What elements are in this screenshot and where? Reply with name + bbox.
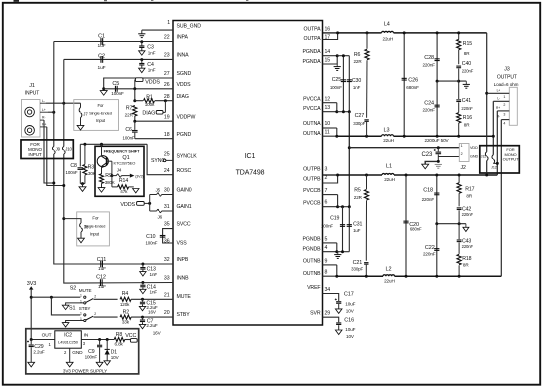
net flag DIAG (164, 101, 166, 113)
svg-text:220nF: 220nF (423, 252, 436, 257)
wire SVCC pin35 (163, 229, 173, 243)
ground IC2 (66, 362, 73, 367)
ground A sgnd (463, 83, 470, 85)
svg-text:L-: L- (497, 97, 500, 101)
svg-text:15: 15 (325, 58, 331, 64)
capacitor C28 column (436, 33, 438, 81)
svg-text:SYNCLK: SYNCLK (177, 154, 198, 160)
svg-text:C5: C5 (112, 81, 119, 87)
svg-text:1nF: 1nF (150, 290, 158, 295)
svg-text:INPB: INPB (177, 257, 189, 263)
node C23 junction (437, 146, 440, 149)
node R3 top (83, 143, 86, 146)
box FOR MONO INPUT (21, 140, 73, 159)
svg-text:MUTE: MUTE (177, 294, 192, 300)
wire SVR pin29 (323, 317, 339, 322)
svg-text:10V: 10V (111, 355, 120, 360)
svg-text:OUTPA: OUTPA (304, 26, 322, 32)
node C5 left junction (102, 87, 105, 90)
svg-text:PGNDB: PGNDB (303, 236, 322, 242)
decoupling column C30 (348, 56, 350, 112)
svg-text:PVCCA: PVCCA (303, 96, 321, 102)
svg-text:R5: R5 (354, 188, 361, 194)
wire VDDPW pin19 (134, 116, 136, 121)
svg-text:1uF: 1uF (98, 43, 106, 49)
svg-text:2200uF 50V: 2200uF 50V (424, 138, 449, 143)
wire PGNDB pins 5 4 bracket (323, 242, 337, 244)
svg-text:J6: J6 (157, 215, 162, 220)
svg-text:16: 16 (325, 26, 331, 32)
net flag VDDS top (134, 80, 136, 89)
wire PGNDA pins 14 15 bracket (323, 55, 338, 57)
svg-text:Load=6 ohm: Load=6 ohm (494, 82, 519, 87)
svg-text:3V3: 3V3 (27, 281, 37, 287)
resistor R2 (120, 315, 131, 319)
svg-text:IC1: IC1 (245, 153, 256, 160)
wire OUTPB pins 3 2 bracket (323, 174, 338, 176)
box FOR MONO OUTPUT (480, 146, 520, 173)
svg-text:9: 9 (325, 258, 328, 264)
svg-text:13: 13 (325, 105, 331, 111)
transistor Q1 (97, 156, 108, 167)
jumper J7 (80, 103, 82, 107)
svg-text:21: 21 (164, 292, 170, 298)
svg-text:100k: 100k (145, 102, 155, 107)
node R1 R7 junction (133, 99, 136, 102)
svg-text:TDA7498: TDA7498 (236, 170, 265, 177)
svg-text:31: 31 (164, 204, 170, 210)
svg-text:C21: C21 (353, 260, 363, 266)
decoupling column C25 (342, 56, 344, 112)
svg-text:1nF: 1nF (150, 272, 158, 277)
svg-text:4: 4 (325, 245, 328, 251)
svg-text:1: 1 (80, 294, 82, 298)
svg-text:1uF: 1uF (98, 284, 106, 290)
capacitor C24 column (436, 81, 438, 136)
rail OUTB+ left (338, 174, 382, 176)
riser OUTB- to J3 pin4 (500, 120, 502, 277)
capacitor C26 column (403, 33, 405, 136)
svg-text:1: 1 (80, 311, 82, 315)
ground PGNDB sgnd (337, 252, 339, 255)
wire INPA horizontal (54, 41, 173, 43)
svg-text:J1: J1 (29, 83, 35, 89)
svg-text:L4931C250: L4931C250 (58, 340, 79, 345)
capacitor C21 (364, 262, 368, 264)
svg-text:22uH: 22uH (384, 177, 395, 182)
svg-text:R4: R4 (122, 291, 129, 297)
svg-text:19: 19 (164, 114, 170, 120)
wire SGND pin27 (104, 78, 173, 89)
svg-text:7: 7 (325, 188, 328, 194)
svg-text:R6: R6 (354, 52, 361, 58)
svg-text:L1: L1 (386, 163, 392, 169)
node INPA junction C3 (140, 40, 143, 43)
resistor R15 (458, 33, 460, 40)
svg-text:2: 2 (503, 103, 505, 107)
svg-text:680nF: 680nF (410, 226, 422, 231)
wire ROSC corner to pin24 (147, 144, 173, 174)
capacitor C9 (99, 340, 101, 345)
svg-text:10uF: 10uF (345, 301, 355, 306)
svg-text:680nF: 680nF (406, 85, 419, 90)
capacitor C42 (457, 207, 462, 209)
wire 3V3 rail (30, 290, 32, 340)
capacitor C16 (336, 322, 341, 324)
svg-text:100nF: 100nF (145, 241, 157, 246)
svg-text:2.2uF: 2.2uF (146, 323, 158, 328)
svg-text:J4: J4 (117, 167, 122, 172)
IC1 pin1 SUB_GND wire (142, 29, 173, 31)
svg-text:28: 28 (164, 94, 170, 100)
svg-text:C41: C41 (462, 98, 471, 104)
capacitor C7 (142, 317, 144, 319)
svg-text:OUTPA: OUTPA (304, 36, 322, 42)
wire INNA horizontal (64, 58, 173, 60)
svg-text:10uF: 10uF (345, 327, 355, 332)
capacitor C17 (336, 301, 341, 303)
capacitor C5 (114, 86, 116, 92)
svg-text:C40: C40 (462, 61, 471, 67)
svg-text:VDDPW: VDDPW (177, 114, 196, 120)
svg-text:J3: J3 (504, 67, 510, 73)
svg-text:18: 18 (164, 132, 170, 138)
ground C14 (140, 289, 146, 293)
svg-text:12: 12 (325, 96, 331, 102)
svg-text:220nF: 220nF (422, 197, 435, 202)
svg-text:VCC: VCC (125, 333, 136, 339)
svg-text:R15: R15 (463, 41, 472, 47)
rail OUTA- right (394, 135, 494, 137)
svg-text:J7: J7 (83, 111, 88, 116)
ground C15 (139, 306, 145, 310)
svg-text:C16: C16 (344, 318, 354, 324)
IC U1 TDA7498 body (173, 21, 323, 326)
ground D1 (104, 361, 110, 365)
svg-text:C25: C25 (332, 77, 341, 83)
connector J3 body (509, 87, 517, 125)
J1 RCA jack R (25, 126, 35, 136)
node C9 junction (98, 338, 101, 341)
svg-text:ROSC: ROSC (177, 168, 192, 174)
wire R- riser to INPB (44, 120, 54, 183)
bus VDD vertical (348, 112, 350, 207)
svg-text:PVCCB: PVCCB (303, 188, 321, 194)
svg-text:220nF: 220nF (422, 62, 435, 67)
svg-text:10V: 10V (346, 334, 355, 339)
node C15 junction (141, 298, 144, 301)
ground GND supply triangle (422, 164, 429, 169)
wire VDDS vertical to R1 R7 (134, 89, 136, 101)
svg-text:INNA: INNA (177, 53, 190, 59)
wire VREF pin34 (323, 294, 339, 302)
wire INNA riser x63.8 upper (63, 59, 65, 103)
svg-text:OUT: OUT (42, 333, 52, 339)
svg-text:2: 2 (461, 152, 463, 156)
svg-text:INPUT: INPUT (28, 152, 42, 157)
svg-text:8: 8 (325, 270, 328, 276)
ground PGNDA sgnd (336, 64, 338, 66)
svg-text:8R: 8R (463, 262, 469, 267)
svg-text:For: For (98, 103, 105, 108)
svg-text:1: 1 (167, 20, 170, 26)
svg-text:1nF: 1nF (148, 67, 156, 72)
ground C7 (139, 324, 145, 328)
svg-text:R8: R8 (116, 332, 123, 338)
node INNA junction C4 (140, 58, 143, 61)
svg-text:S2: S2 (70, 286, 76, 292)
wire ROSC net top (80, 143, 147, 145)
capacitor C8 (79, 144, 81, 166)
zener diode D1 (106, 340, 108, 350)
ground line A mid (437, 80, 466, 82)
jumper J5 GAIN0 (150, 194, 157, 196)
svg-text:C22: C22 (425, 245, 435, 251)
svg-text:26: 26 (164, 82, 170, 88)
capacitor C3 (141, 42, 143, 46)
svg-text:100nF: 100nF (66, 170, 78, 175)
svg-text:16V: 16V (153, 331, 162, 336)
svg-text:8R: 8R (466, 194, 472, 199)
svg-text:24: 24 (164, 168, 170, 174)
ground J8 (78, 238, 85, 243)
resistor R1 (135, 100, 143, 102)
ground S2 (62, 305, 69, 309)
svg-text:C31: C31 (353, 222, 362, 228)
capacitor C2 (100, 56, 102, 63)
svg-text:34: 34 (325, 287, 331, 293)
jumper J12 (492, 155, 493, 159)
capacitor C11 (100, 261, 102, 268)
svg-text:100nF: 100nF (330, 85, 342, 90)
svg-text:27: 27 (164, 71, 170, 77)
wire L+ to riser x53.8 (48, 111, 54, 113)
svg-text:R+: R+ (496, 106, 500, 110)
svg-text:100nF: 100nF (111, 91, 124, 96)
node S1 branch (50, 296, 53, 299)
svg-text:1uF: 1uF (98, 65, 106, 71)
svg-text:5: 5 (325, 236, 328, 242)
svg-text:OUTNB: OUTNB (303, 271, 321, 277)
svg-text:PGNDA: PGNDA (303, 59, 322, 65)
jumper J8 (64, 219, 81, 223)
wire PGND pin18 (135, 138, 173, 140)
svg-text:IC2: IC2 (64, 333, 72, 339)
svg-text:VDDS: VDDS (145, 79, 160, 85)
wire C8 R3 bottom (80, 183, 85, 185)
svg-text:GND: GND (470, 155, 478, 159)
connector J1 body (22, 100, 41, 138)
svg-text:100nF: 100nF (123, 136, 135, 141)
svg-text:220nF: 220nF (462, 69, 474, 74)
svg-text:J12: J12 (491, 165, 497, 169)
riser OUTA- to J3 pin2 (492, 101, 494, 155)
svg-text:OUTNA: OUTNA (303, 121, 321, 127)
svg-text:VDDS: VDDS (177, 82, 192, 88)
capacitor C18 column (436, 175, 438, 224)
svg-text:C26: C26 (408, 78, 418, 84)
svg-text:20: 20 (164, 310, 170, 316)
svg-text:14: 14 (325, 49, 331, 55)
svg-text:R3: R3 (88, 164, 95, 170)
node VDDPW junction (133, 120, 136, 123)
node 3V3 bus (30, 296, 33, 299)
svg-text:3: 3 (503, 113, 505, 117)
wire L- net to J7 and C2 riser (46, 102, 81, 104)
rail OUTA+ right (394, 32, 487, 34)
riser OUTA+ to J3 pin1 (486, 33, 488, 152)
svg-text:6: 6 (325, 199, 328, 205)
svg-text:380K: 380K (105, 180, 115, 185)
svg-text:L+: L+ (497, 88, 501, 92)
svg-text:INPUT: INPUT (25, 91, 40, 97)
node gain junction (148, 202, 151, 205)
svg-text:C24: C24 (424, 100, 434, 106)
svg-text:3V3 POWER SUPPLY: 3V3 POWER SUPPLY (63, 369, 107, 374)
svg-text:GND: GND (72, 350, 83, 356)
svg-text:FREQUENCY SHIFT: FREQUENCY SHIFT (104, 149, 140, 153)
svg-text:29: 29 (325, 311, 331, 317)
svg-text:30K: 30K (88, 171, 97, 176)
ground C13 (140, 272, 146, 276)
svg-text:35: 35 (164, 222, 170, 228)
svg-text:SVR: SVR (310, 311, 321, 317)
wire Q1 base to J4 node (107, 160, 112, 162)
svg-text:30: 30 (164, 187, 170, 193)
resistor R6 zobel A (366, 33, 368, 49)
svg-text:22uH: 22uH (383, 37, 394, 42)
capacitor C40 (456, 65, 461, 67)
capacitor C23 (434, 149, 436, 151)
svg-text:R-: R- (497, 115, 500, 119)
svg-text:Single-Ended: Single-Ended (89, 110, 112, 115)
svg-text:10V: 10V (346, 308, 355, 313)
svg-text:R7: R7 (126, 105, 133, 111)
svg-text:220nF: 220nF (462, 244, 474, 249)
svg-text:INPA: INPA (177, 35, 189, 41)
svg-text:L2: L2 (386, 267, 392, 273)
node J8 junction (62, 217, 65, 220)
wire 3V3 to S1 (51, 297, 80, 315)
svg-text:L3: L3 (384, 128, 390, 134)
ground R14 (133, 189, 139, 193)
svg-text:10: 10 (325, 121, 331, 127)
svg-text:2: 2 (325, 175, 328, 181)
wire OUTPA pins 16 17 bracket (323, 32, 338, 34)
svg-text:L+: L+ (42, 108, 46, 112)
capacitor C15 (142, 299, 144, 301)
wire OUTNA pins 10 11 bracket (323, 127, 337, 129)
resistor R16 (457, 113, 461, 123)
svg-text:OUTPB: OUTPB (303, 177, 321, 183)
svg-text:GAIN1: GAIN1 (177, 204, 192, 210)
svg-text:Input: Input (96, 118, 106, 123)
svg-text:GAIN0: GAIN0 (177, 188, 192, 194)
resistor R14 (111, 176, 113, 187)
svg-text:2: 2 (94, 312, 96, 316)
capacitor C10 (160, 235, 166, 237)
svg-text:PVCCA: PVCCA (303, 106, 321, 112)
capacitor C41 (458, 81, 460, 99)
svg-text:C6: C6 (125, 127, 132, 133)
jumper J6 GAIN1 (149, 203, 151, 211)
svg-text:220nF: 220nF (462, 212, 474, 217)
svg-text:22uH: 22uH (384, 278, 395, 283)
svg-text:J11: J11 (481, 154, 486, 158)
decoupling column C19 (342, 207, 344, 252)
wire Q1 emitter to R9 (101, 166, 103, 174)
resistor R8 (114, 337, 125, 341)
svg-text:C27: C27 (355, 113, 365, 119)
svg-text:1uF: 1uF (353, 228, 361, 233)
capacitor C6 (134, 121, 136, 130)
node DIAG junction (164, 99, 167, 102)
capacitor C43 (458, 224, 460, 240)
wire INPB riser x53.8 lower (52, 147, 53, 150)
svg-text:220nF: 220nF (461, 106, 473, 111)
svg-text:22R: 22R (354, 195, 363, 200)
svg-text:STBY: STBY (177, 312, 191, 318)
svg-text:OUTPB: OUTPB (303, 167, 321, 173)
svg-text:C8: C8 (70, 163, 77, 169)
jumper J11 (485, 152, 486, 156)
box For Single-Ended Input (B) (77, 212, 110, 246)
ground R9 (101, 183, 103, 187)
svg-text:J9: J9 (56, 146, 61, 151)
svg-text:J10: J10 (65, 146, 72, 151)
svg-text:VDD: VDD (470, 146, 478, 150)
svg-text:8R: 8R (464, 123, 470, 128)
svg-text:C19: C19 (330, 215, 339, 221)
svg-text:C17: C17 (344, 291, 354, 297)
svg-text:33k: 33k (122, 320, 130, 325)
wire INNB horizontal (66, 282, 173, 285)
ground J7 (77, 125, 84, 130)
node R6 top (366, 31, 369, 34)
svg-text:R-: R- (42, 116, 45, 120)
wire R+ riser to INNB (47, 127, 64, 186)
svg-text:PGNDB: PGNDB (303, 246, 322, 252)
node D1 junction (106, 338, 109, 341)
box FREQUENCY SHIFT (95, 146, 144, 196)
svg-text:VSS: VSS (177, 241, 188, 247)
J1 RCA jack L (25, 107, 35, 117)
svg-text:47k: 47k (120, 189, 128, 194)
ground C5 (100, 91, 107, 96)
svg-text:R16: R16 (463, 115, 472, 121)
svg-text:8R: 8R (464, 51, 470, 56)
wire INPB horizontal (57, 263, 174, 265)
ground C16 (335, 330, 342, 335)
svg-text:C12: C12 (96, 274, 106, 280)
ground C23 sgnd (435, 163, 442, 165)
resistor R3 (84, 144, 86, 164)
ground C9 (96, 362, 103, 367)
svg-text:22uH: 22uH (383, 138, 394, 143)
resistor R4 (120, 297, 131, 301)
svg-text:C30: C30 (352, 78, 361, 84)
svg-text:OUTNA: OUTNA (303, 131, 321, 137)
svg-text:R17: R17 (465, 187, 474, 193)
svg-text:1nF: 1nF (148, 50, 156, 55)
svg-text:OUTPUT: OUTPUT (503, 157, 520, 162)
svg-text:KTC2875EO: KTC2875EO (114, 160, 136, 165)
rail OUTB- right (395, 275, 502, 277)
resistor R5 zobel B (366, 175, 368, 189)
svg-text:MUTE: MUTE (79, 288, 92, 293)
capacitor C13 (142, 264, 144, 267)
svg-text:C2: C2 (98, 54, 105, 60)
